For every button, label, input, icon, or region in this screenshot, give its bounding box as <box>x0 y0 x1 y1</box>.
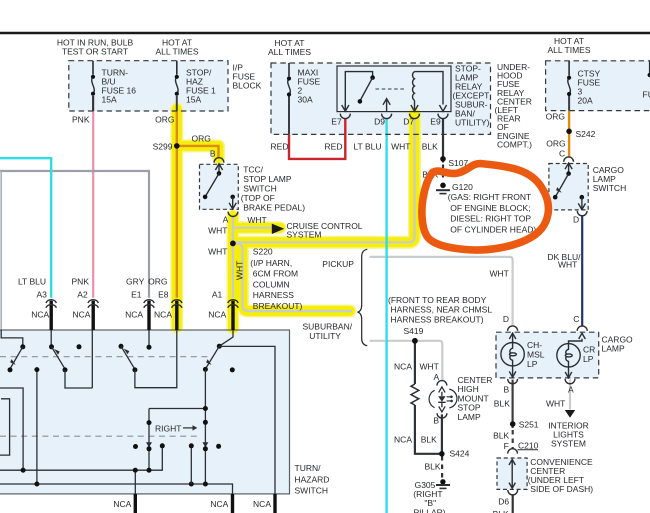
svg-text:A: A <box>223 214 229 224</box>
wire BLK LED B to S424 <box>441 414 443 453</box>
svg-text:SWITCH: SWITCH <box>243 184 277 194</box>
svg-text:NCA: NCA <box>210 499 228 509</box>
TCC stop lamp switch box <box>200 164 239 209</box>
svg-text:ALL TIMES: ALL TIMES <box>268 47 311 57</box>
svg-text:A: A <box>568 385 574 395</box>
svg-text:(I/P HARN,: (I/P HARN, <box>250 258 292 268</box>
svg-text:(FRONT TO REAR BODY: (FRONT TO REAR BODY <box>388 295 487 305</box>
convenience center double arrow <box>509 459 515 488</box>
svg-text:F: F <box>504 441 509 451</box>
svg-text:WHT: WHT <box>391 142 410 152</box>
TCC switch internals <box>203 164 237 209</box>
terminal E8 assembly <box>172 300 182 330</box>
svg-text:TCC/: TCC/ <box>243 165 263 175</box>
relay coil top wire to E9 <box>415 72 444 105</box>
highlight TCC A to S220 to A1 <box>228 216 238 328</box>
svg-text:S251: S251 <box>519 420 539 430</box>
svg-text:S299: S299 <box>153 142 173 152</box>
relay pin D9 arrow up <box>383 99 390 112</box>
svg-text:E1: E1 <box>131 290 142 300</box>
highlight halo TCC A to S220 to A1 <box>226 216 239 328</box>
fuse MAXI 2 <box>287 63 291 97</box>
terminal A2 assembly <box>88 300 98 330</box>
junction dot hazard right upper <box>203 420 208 425</box>
underhood fuse relay center box <box>271 63 491 134</box>
svg-text:G120: G120 <box>452 182 473 192</box>
bus wire 2 <box>0 484 233 494</box>
svg-text:B: B <box>210 149 216 159</box>
pole3 contact <box>132 367 137 372</box>
svg-text:OF CYLINDER HEAD): OF CYLINDER HEAD) <box>450 224 536 234</box>
wire WHT S220 suburban branch <box>233 243 352 311</box>
connector arch cargo switch C <box>564 157 574 162</box>
connector cup cargo lamp A <box>565 379 575 384</box>
cargo lamp switch box <box>549 164 588 210</box>
svg-text:OF ENGINE BLOCK;: OF ENGINE BLOCK; <box>450 203 530 213</box>
svg-text:ORG: ORG <box>546 112 565 122</box>
C210 underline <box>518 449 539 451</box>
row2 spare dots <box>133 444 138 449</box>
svg-text:BLK: BLK <box>493 430 509 440</box>
svg-text:PNK: PNK <box>72 277 90 287</box>
svg-text:6CM FROM: 6CM FROM <box>253 269 298 279</box>
NCA terminal bar bottom 1 <box>231 494 234 513</box>
relay pin E9 arrow <box>439 105 446 111</box>
svg-text:SIDE OF DASH): SIDE OF DASH) <box>530 484 593 494</box>
svg-text:BLOCK: BLOCK <box>233 81 262 91</box>
svg-text:30A: 30A <box>298 95 313 105</box>
svg-text:ALL TIMES: ALL TIMES <box>156 47 199 57</box>
left NCA drop dot <box>133 468 138 473</box>
stop lamp relay box <box>337 66 451 112</box>
highlight ORG fuse wire down to E8 <box>172 109 182 327</box>
nested loop left inner <box>0 399 10 455</box>
pole3 pivot <box>119 344 124 349</box>
svg-text:CR: CR <box>583 345 595 355</box>
svg-text:MSL: MSL <box>527 349 545 359</box>
svg-text:BLK: BLK <box>421 435 437 445</box>
wire ORG S299 to TCC B <box>177 146 219 157</box>
svg-text:15A: 15A <box>102 95 117 105</box>
convenience center fill <box>497 458 527 489</box>
svg-text:PICKUP: PICKUP <box>322 259 354 269</box>
svg-text:HAZARD: HAZARD <box>295 474 330 484</box>
pole4 spare contact <box>230 367 235 372</box>
wire WHT cruise control branch <box>233 227 272 229</box>
svg-text:RIGHT: RIGHT <box>155 424 181 434</box>
terminal E1 assembly <box>144 300 154 330</box>
svg-text:NCA: NCA <box>31 310 49 320</box>
NCA terminal bar bottom 2 <box>273 494 276 513</box>
highlight halo suburban utility branch <box>233 243 350 311</box>
pole3 blade <box>121 346 134 368</box>
svg-text:BLK: BLK <box>422 141 438 151</box>
svg-text:ORG: ORG <box>192 134 211 144</box>
highlight D7 wht wire branch <box>233 114 415 242</box>
svg-text:B: B <box>433 416 439 426</box>
svg-text:S424: S424 <box>450 449 470 459</box>
hazard blade arrows <box>146 442 152 447</box>
wire BLK dashed S251 to C210 F <box>512 430 514 449</box>
svg-text:C210: C210 <box>518 440 539 450</box>
svg-text:NCA: NCA <box>208 310 226 320</box>
wire RED E7 to maxi fuse loop <box>289 118 345 159</box>
pole2 blade <box>52 347 65 369</box>
wire ORG colored run to E8 <box>176 111 178 298</box>
wire PNK fuse16 to A2 <box>92 96 94 111</box>
svg-text:20A: 20A <box>578 96 593 106</box>
contact to A2 link <box>65 370 92 388</box>
cargo lamp box fill <box>496 332 599 378</box>
pole4 contact drop wire <box>204 369 206 484</box>
pole2 A3 stub <box>50 330 52 345</box>
svg-text:RED: RED <box>325 142 343 152</box>
svg-text:LP: LP <box>527 359 538 369</box>
svg-text:ORG: ORG <box>155 115 174 125</box>
row1 spare dot <box>77 344 82 349</box>
wire BLK dashed S107 to G120 <box>442 165 444 181</box>
cargo lamp box <box>496 332 599 378</box>
hazard feed horizontal <box>149 408 205 410</box>
I/P fuse block box <box>69 61 228 111</box>
svg-text:WHT: WHT <box>546 399 565 409</box>
svg-text:LP: LP <box>583 354 594 364</box>
node S424 <box>439 451 445 457</box>
svg-text:C: C <box>559 149 565 159</box>
wire BLK maxi fuse lower stub <box>288 96 290 134</box>
svg-text:NCA: NCA <box>394 435 412 445</box>
relay pin E7 arrow <box>344 104 346 111</box>
relay pin D7 arrow <box>411 100 418 111</box>
svg-text:C: C <box>573 314 579 324</box>
bulb CR LP <box>557 333 586 378</box>
connector cup E9 <box>438 114 448 119</box>
terminal A3 assembly <box>46 300 56 330</box>
LED CHMSL symbol <box>429 387 457 412</box>
svg-text:STOP LAMP: STOP LAMP <box>243 174 292 184</box>
svg-text:COMPT.): COMPT.) <box>497 139 532 149</box>
terminal A1 assembly <box>228 300 238 330</box>
wire WHT pickup branch to CH-MSL D <box>370 257 513 325</box>
dashed row line 1 <box>0 356 211 358</box>
fuse F1 STOP/HAZ <box>175 61 179 96</box>
svg-text:NCA: NCA <box>113 499 131 509</box>
svg-text:(GAS: RIGHT FRONT: (GAS: RIGHT FRONT <box>448 192 531 202</box>
connector cup cargo switch D <box>577 211 587 216</box>
wire BLK D6 below convenience center <box>512 494 514 513</box>
nested loop left outer <box>0 388 23 470</box>
svg-text:PILLAR): PILLAR) <box>414 507 446 513</box>
svg-text:CH-: CH- <box>527 340 542 350</box>
svg-text:TURN/: TURN/ <box>295 463 322 473</box>
bus wire 1 <box>0 446 162 470</box>
svg-text:HARNESS: HARNESS <box>253 290 294 300</box>
brace pickup suburban <box>358 249 368 346</box>
svg-text:DIESEL: RIGHT TOP: DIESEL: RIGHT TOP <box>450 214 531 224</box>
cruise control arrow <box>272 224 284 234</box>
svg-text:BLK: BLK <box>493 509 509 513</box>
E8 wire inside <box>135 330 177 388</box>
svg-text:NCA: NCA <box>72 310 90 320</box>
top rule <box>0 32 650 35</box>
svg-text:UTILITY: UTILITY <box>309 331 341 341</box>
svg-text:BLK: BLK <box>425 461 441 471</box>
pole4 pivot <box>217 344 222 349</box>
bus2 dots <box>34 482 39 487</box>
svg-text:D9: D9 <box>374 117 385 127</box>
wire WHT TCC A to S220 to A1 <box>232 216 234 298</box>
svg-text:LT BLU: LT BLU <box>353 142 381 152</box>
svg-text:D6: D6 <box>498 497 509 507</box>
svg-text:WHT: WHT <box>235 261 245 280</box>
fuse F16 TURN-B/U <box>91 61 95 111</box>
svg-text:HARNESS BREAKOUT): HARNESS BREAKOUT) <box>391 314 484 324</box>
highlight halo cruise control branch <box>233 221 280 234</box>
wire LT BLU from left edge to A3 <box>0 158 51 298</box>
svg-text:WHT: WHT <box>420 362 439 372</box>
svg-text:COLUMN: COLUMN <box>253 279 290 289</box>
ground G120 <box>436 183 450 194</box>
convenience center box <box>497 458 527 489</box>
svg-text:D: D <box>503 314 509 324</box>
A1 feed diagonal <box>219 330 233 346</box>
link dot 191 <box>189 443 194 448</box>
svg-text:D7: D7 <box>403 117 414 127</box>
svg-text:WHT: WHT <box>208 247 227 257</box>
pole2 pivot <box>49 344 54 349</box>
svg-text:ORG: ORG <box>148 277 167 287</box>
node S419 <box>412 338 418 344</box>
connector cup E7 <box>340 114 350 119</box>
svg-text:E7: E7 <box>331 117 342 127</box>
connector cup D9 <box>382 114 392 119</box>
junction dot hazard left upper <box>147 420 152 425</box>
svg-text:NCA: NCA <box>125 310 143 320</box>
svg-text:LT BLU: LT BLU <box>18 277 46 287</box>
wire left edge stub into switch <box>0 171 2 330</box>
connector cup TCC A <box>228 212 238 217</box>
pole1 feed wire <box>1 330 23 345</box>
bus1 dot mid <box>147 468 152 473</box>
connector cup D7 <box>410 114 420 119</box>
svg-text:NCA: NCA <box>154 310 172 320</box>
connector cup convenience bottom <box>508 490 518 495</box>
svg-text:HARNESS, NEAR CHMSL: HARNESS, NEAR CHMSL <box>391 305 493 315</box>
hazard lower contact dots <box>147 446 152 451</box>
svg-text:GRY: GRY <box>126 277 145 287</box>
interior lights arrow <box>565 410 575 418</box>
hazard left drop <box>148 409 150 471</box>
connector arch cargo lamp C <box>577 326 587 331</box>
cargo lamp switch fill <box>549 164 588 210</box>
pole1 pivot <box>20 344 25 349</box>
LAYER: yellow highlights <box>177 109 415 328</box>
LAYER: turn hazard switch internals <box>0 300 275 513</box>
contact2 drop wire <box>36 370 38 484</box>
connector arch TCC B <box>214 158 224 163</box>
node S299 <box>174 143 180 149</box>
turn hazard switch box <box>0 330 290 494</box>
connector cup LED B <box>437 413 447 418</box>
A2 wire inside <box>91 330 93 388</box>
E1 stub and end dot <box>147 330 152 350</box>
highlight halo S299 to B branch <box>177 146 219 158</box>
wire PNK colored run to A2 <box>92 111 94 298</box>
wire WHT suburban to S419 to LED A <box>370 341 443 381</box>
svg-text:S419: S419 <box>404 326 424 336</box>
svg-text:(TOP OF: (TOP OF <box>241 193 275 203</box>
svg-text:SYSTEM: SYSTEM <box>551 439 586 449</box>
node S107 <box>440 156 446 162</box>
wire BLK CH-MSL B to S251 <box>511 380 513 428</box>
svg-text:ALL TIMES: ALL TIMES <box>548 45 591 55</box>
relay U1 internals: switch arm <box>345 72 375 112</box>
svg-text:E9: E9 <box>430 117 441 127</box>
wire WHT D7 to S220 <box>233 118 415 242</box>
svg-text:SWITCH: SWITCH <box>593 183 627 193</box>
pole2 contact <box>63 367 68 372</box>
resistor on NCA wire <box>411 384 419 405</box>
wire LT BLU D9 down across page <box>385 118 387 513</box>
svg-text:WHT: WHT <box>558 259 577 269</box>
svg-text:RED: RED <box>271 142 289 152</box>
wire BLK E9 to S107 <box>442 118 444 162</box>
highlight halo ORG fuse wire down to E8 <box>170 109 183 327</box>
svg-text:PNK: PNK <box>72 115 90 125</box>
left NCA drop wire <box>134 470 136 494</box>
highlight S299 to B branch <box>177 146 219 158</box>
hazard blade arrow right <box>202 442 208 447</box>
LAYER: components <box>91 61 650 495</box>
contact2 dot <box>34 367 39 372</box>
svg-text:BLK: BLK <box>494 399 510 409</box>
wire BLK dashed S424 to G305 <box>441 456 443 479</box>
CTSY fuse block box <box>546 61 650 111</box>
NCA terminal bar bottom left <box>134 494 137 513</box>
svg-text:B: B <box>504 385 510 395</box>
svg-text:BRAKE PEDAL): BRAKE PEDAL) <box>243 203 305 213</box>
svg-text:A: A <box>434 372 440 382</box>
highlight suburban utility branch <box>233 243 350 311</box>
svg-text:A2: A2 <box>77 290 88 300</box>
svg-text:BREAKOUT): BREAKOUT) <box>253 301 303 311</box>
svg-text:WHT: WHT <box>490 269 509 279</box>
fuse CTSY 3 <box>567 61 571 96</box>
bus2 dot right <box>203 482 208 487</box>
connector arch convenience top <box>508 449 518 454</box>
A1 pivot to right branch <box>219 346 275 494</box>
wire DK BLU cargo switch D to cargo lamp C <box>581 216 583 326</box>
highlight halo D7 wht wire branch <box>233 114 415 242</box>
row2 spare dot right <box>216 444 221 449</box>
svg-text:15A: 15A <box>186 95 201 105</box>
LAYER: annotation <box>422 164 549 251</box>
svg-text:LAMP: LAMP <box>602 344 625 354</box>
RIGHT arrow <box>183 425 197 430</box>
CTSY fuse block fill <box>546 61 650 111</box>
svg-text:S220: S220 <box>253 247 273 257</box>
pole4 blade <box>206 346 219 368</box>
svg-text:UTILITY): UTILITY) <box>455 118 490 128</box>
node S242 <box>566 129 572 135</box>
junction dots hazard <box>203 406 208 411</box>
wire GRY from left edge to E1 <box>0 171 149 298</box>
bulb CH-MSL LP <box>501 333 524 377</box>
svg-text:FU: FU <box>643 90 650 100</box>
pole4 contact <box>203 367 208 372</box>
highlight cruise control branch <box>233 223 280 233</box>
relay coil <box>413 72 415 101</box>
link wire 191 <box>190 446 192 484</box>
svg-text:E8: E8 <box>158 290 169 300</box>
connector arch cargo lamp D <box>508 326 518 331</box>
I/P fuse block fill <box>69 61 228 111</box>
svg-text:TEST OR START: TEST OR START <box>62 47 128 57</box>
pole1 contact <box>8 367 13 372</box>
pole1 blade <box>10 347 23 368</box>
LAYER: wires <box>0 96 582 513</box>
wire WHT CR lamp A to interior lights <box>569 380 571 410</box>
bus1 dots <box>21 468 26 473</box>
svg-text:NCA: NCA <box>253 499 271 509</box>
TCC stop lamp switch fill <box>200 164 239 209</box>
cargo lamp switch internals <box>553 163 586 210</box>
relay linkage dashed <box>376 88 405 90</box>
svg-text:LAMP: LAMP <box>458 412 481 422</box>
dashed row line 2 <box>0 435 201 437</box>
svg-text:SUBURBAN/: SUBURBAN/ <box>303 322 353 332</box>
svg-text:NCA: NCA <box>394 362 412 372</box>
turn hazard switch fill <box>0 330 290 494</box>
svg-text:ORG: ORG <box>546 138 565 148</box>
bus2 dot mid <box>189 482 194 487</box>
hazard lower contact dot right <box>203 446 208 451</box>
wire ORG colored run to cargo switch C <box>568 111 570 158</box>
orange marker circle around G120 note <box>422 164 549 251</box>
node S251 <box>510 421 516 427</box>
wire ORG stop-haz fuse to E8 <box>176 96 178 111</box>
svg-text:SYSTEM: SYSTEM <box>287 230 322 240</box>
wire BLK S419 NCA resistor branch <box>415 342 442 454</box>
fuse fragment at right edge <box>648 61 650 77</box>
ground G305 <box>436 479 450 488</box>
svg-text:WHT: WHT <box>247 215 266 225</box>
bus1 corner top dot <box>160 443 165 448</box>
svg-text:SWITCH: SWITCH <box>295 486 329 496</box>
svg-text:A1: A1 <box>212 290 223 300</box>
connector cup cargo lamp B <box>508 379 518 384</box>
svg-text:D: D <box>573 214 579 224</box>
node S220 <box>230 241 236 247</box>
svg-text:A3: A3 <box>36 290 47 300</box>
wire ORG CTSY fuse to S242 to C <box>568 96 570 111</box>
svg-text:WHT: WHT <box>208 226 227 236</box>
svg-text:S242: S242 <box>576 129 596 139</box>
underhood fuse relay center fill <box>271 63 491 134</box>
connector arch LED A <box>437 381 447 386</box>
